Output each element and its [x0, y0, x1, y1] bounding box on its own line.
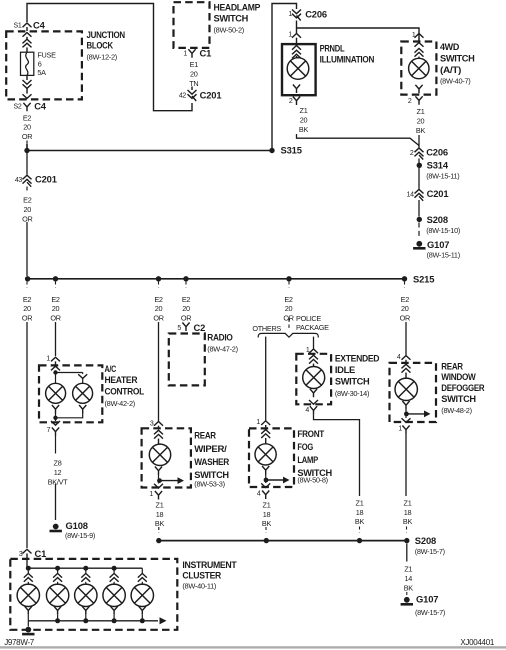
- cluster internal top bus: [27, 559, 142, 568]
- svg-text:3: 3: [150, 420, 154, 427]
- svg-text:2: 2: [408, 98, 412, 105]
- svg-text:E2: E2: [23, 196, 32, 205]
- connector C4 pin S1: [23, 23, 32, 27]
- svg-text:14: 14: [407, 192, 415, 199]
- svg-text:20: 20: [24, 205, 32, 214]
- junction dot S208 x=158.8: [156, 538, 161, 543]
- svg-text:OR: OR: [22, 314, 32, 323]
- svg-text:G107: G107: [416, 594, 438, 605]
- cluster top bus junction dots: [26, 566, 31, 571]
- svg-text:Z1: Z1: [156, 500, 164, 509]
- svg-text:(8W-15-11): (8W-15-11): [426, 172, 459, 181]
- rear wiper exit chevron: [158, 475, 160, 484]
- svg-text:PRNDL: PRNDL: [320, 43, 345, 54]
- svg-text:1: 1: [149, 491, 153, 498]
- svg-text:20: 20: [182, 304, 190, 313]
- svg-text:C201: C201: [35, 174, 57, 185]
- svg-text:Z1: Z1: [404, 565, 412, 574]
- svg-text:43: 43: [15, 177, 23, 184]
- svg-text:(8W-50-8): (8W-50-8): [297, 476, 327, 485]
- PRNDL internal exit: [293, 85, 300, 94]
- front fog exit chevron: [265, 475, 267, 484]
- ground G108: [53, 524, 59, 530]
- wire stub+label E2 20 OR (x=406): [404, 282, 406, 288]
- junction dot S215 bus x=55.5: [53, 276, 58, 281]
- svg-text:(8W-50-2): (8W-50-2): [214, 25, 244, 34]
- svg-text:E2: E2: [154, 295, 163, 304]
- junction block internal connector top: [23, 33, 32, 37]
- cluster lamp exit connectors: [25, 606, 32, 615]
- svg-text:REAR: REAR: [441, 361, 463, 372]
- junction dot S215 bus x=186: [183, 276, 188, 281]
- svg-text:E2: E2: [23, 113, 32, 122]
- svg-text:CONTROL: CONTROL: [105, 387, 145, 398]
- svg-text:C4: C4: [33, 19, 46, 30]
- A/C internal entry connector: [51, 366, 60, 370]
- A/C internal split: [53, 370, 57, 374]
- rear wiper internal exit: [155, 467, 162, 476]
- svg-text:SWITCH: SWITCH: [441, 394, 476, 405]
- svg-text:2: 2: [289, 98, 293, 105]
- connector C206 pin 1: [292, 10, 301, 14]
- svg-text:1: 1: [183, 51, 187, 58]
- rear wiper internal entry: [154, 430, 163, 434]
- svg-text:(8W-30-14): (8W-30-14): [335, 389, 369, 398]
- extended idle internal exit: [310, 389, 317, 398]
- node S208 (bus): [404, 538, 409, 543]
- front fog arrow to other circuit: [266, 479, 284, 481]
- junction block internal connector bottom: [26, 75, 28, 80]
- defogger internal exit: [402, 401, 409, 410]
- svg-text:J978W-7: J978W-7: [4, 638, 35, 647]
- svg-text:4: 4: [305, 407, 309, 414]
- svg-text:4: 4: [397, 354, 401, 361]
- junction dot S215 bus x=27: [25, 276, 30, 281]
- lamp front fog: [255, 444, 276, 465]
- lamp instrument cluster 4: [103, 584, 125, 606]
- svg-text:S2: S2: [14, 104, 22, 111]
- svg-text:20: 20: [23, 304, 31, 313]
- svg-text:EXTENDED: EXTENDED: [335, 354, 380, 365]
- wire defogger to S208: [405, 434, 407, 496]
- 4WD internal exit: [415, 85, 422, 94]
- svg-text:BLOCK: BLOCK: [87, 41, 114, 52]
- svg-text:E1: E1: [190, 60, 199, 69]
- svg-text:Z1: Z1: [263, 500, 271, 509]
- svg-text:BK/VT: BK/VT: [48, 477, 68, 486]
- svg-text:S314: S314: [427, 159, 449, 170]
- 4WD internal connector: [415, 43, 424, 47]
- svg-text:BK: BK: [403, 517, 413, 526]
- svg-text:E2: E2: [401, 295, 410, 304]
- svg-text:LAMP: LAMP: [297, 455, 318, 466]
- node S215: [402, 276, 407, 281]
- front fog internal entry: [261, 430, 270, 434]
- svg-text:4WD: 4WD: [440, 42, 459, 53]
- defogger exit chevron: [405, 410, 407, 419]
- svg-text:BK: BK: [299, 125, 309, 134]
- svg-text:E2: E2: [284, 295, 293, 304]
- svg-text:(8W-15-10): (8W-15-10): [426, 226, 460, 235]
- svg-text:C1: C1: [35, 548, 47, 559]
- wire stub+label E2 20 OR (x=158.5): [158, 282, 160, 288]
- cluster internal ground: [27, 621, 29, 627]
- svg-text:FRONT: FRONT: [297, 429, 324, 440]
- svg-text:E2: E2: [23, 295, 32, 304]
- svg-text:20: 20: [23, 123, 31, 132]
- svg-text:S215: S215: [413, 273, 434, 284]
- svg-text:1: 1: [398, 426, 402, 433]
- svg-text:JUNCTION: JUNCTION: [87, 30, 126, 41]
- wire POLICE branch: [313, 337, 315, 349]
- defogger internal entry: [402, 364, 411, 368]
- PRNDL illumination box: [282, 44, 316, 95]
- svg-text:(8W-15-9): (8W-15-9): [65, 531, 95, 540]
- svg-text:REAR: REAR: [194, 431, 216, 442]
- svg-text:BK: BK: [416, 126, 426, 135]
- svg-text:3: 3: [19, 551, 23, 558]
- ground G107 (lower): [404, 597, 410, 603]
- junction dot S215 bus x=289: [286, 276, 291, 281]
- svg-text:PACKAGE: PACKAGE: [296, 323, 329, 332]
- defogger arrow to other circuit: [406, 413, 425, 415]
- svg-text:1: 1: [288, 11, 292, 18]
- svg-text:1: 1: [46, 356, 50, 363]
- node S315: [269, 148, 274, 153]
- lamp 4WD switch: [409, 58, 429, 78]
- wire options brace: [258, 333, 318, 337]
- svg-text:DEFOGGER: DEFOGGER: [441, 383, 484, 394]
- svg-text:5: 5: [177, 325, 181, 332]
- svg-text:TN: TN: [189, 79, 198, 88]
- cluster lamp entry connectors: [27, 568, 29, 573]
- svg-text:(8W-53-3): (8W-53-3): [194, 480, 224, 489]
- connector C206 pin 2: [415, 148, 424, 152]
- wire stub+label E2 20 OR (x=55.5): [55, 282, 57, 288]
- svg-text:20: 20: [285, 304, 293, 313]
- svg-text:C206: C206: [426, 147, 448, 158]
- svg-text:20: 20: [300, 116, 308, 125]
- junction dot at (27,150.5): [24, 148, 29, 153]
- svg-text:(8W-42-2): (8W-42-2): [105, 399, 135, 408]
- svg-text:FUSE: FUSE: [37, 51, 56, 60]
- rear window defogger switch box: [390, 363, 437, 422]
- connector C201 pin 14: [415, 189, 424, 193]
- svg-text:OR: OR: [181, 314, 191, 323]
- svg-text:OR: OR: [400, 314, 410, 323]
- junction dot S215 bus x=158.5: [156, 276, 161, 281]
- svg-text:(8W-15-11): (8W-15-11): [427, 251, 460, 260]
- svg-text:42: 42: [179, 92, 187, 99]
- svg-text:Z1: Z1: [404, 498, 412, 507]
- wire stub+label E2 20 OR (x=289): [288, 282, 290, 288]
- svg-text:HEATER: HEATER: [105, 375, 138, 386]
- lamp instrument cluster 2: [46, 584, 68, 606]
- svg-text:BK: BK: [355, 517, 365, 526]
- svg-text:WASHER: WASHER: [194, 457, 229, 468]
- front fog lamp switch box: [249, 428, 294, 487]
- extended idle internal entry: [309, 355, 318, 359]
- fuse 6 5A: [21, 52, 34, 75]
- wire S315 bus: [27, 144, 272, 151]
- svg-text:7: 7: [47, 427, 51, 434]
- svg-text:C206: C206: [305, 9, 327, 20]
- svg-text:BK: BK: [155, 519, 165, 528]
- wire C206 split to PRNDL and 4WD: [297, 28, 420, 42]
- wire S315 to C206: [272, 4, 297, 151]
- svg-text:Z1: Z1: [417, 107, 425, 116]
- svg-text:OR: OR: [50, 314, 60, 323]
- connector C2 pin 5: [182, 323, 189, 332]
- svg-text:18: 18: [156, 510, 164, 519]
- svg-text:SWITCH: SWITCH: [335, 377, 370, 388]
- PRNDL internal connector: [292, 46, 301, 50]
- svg-text:WINDOW: WINDOW: [441, 372, 476, 383]
- junction block: [6, 31, 82, 99]
- wire C201 to S208: [418, 200, 420, 217]
- svg-text:12: 12: [54, 468, 62, 477]
- wire 4WD to C206: [418, 135, 420, 148]
- svg-text:OR: OR: [22, 132, 32, 141]
- svg-text:20: 20: [52, 304, 60, 313]
- svg-text:18: 18: [356, 508, 364, 517]
- connector C201 pin 42: [191, 87, 193, 91]
- connector C1 pin 1 (headlamp switch): [188, 49, 195, 58]
- svg-text:POLICE: POLICE: [296, 314, 321, 323]
- wire S208 to G107 (Z1 14 BK): [406, 544, 408, 562]
- connector C201 pin 43: [26, 151, 28, 175]
- svg-text:(8W-40-11): (8W-40-11): [182, 582, 216, 591]
- wire top feed loop (headlamp C201 to junction block): [27, 4, 192, 111]
- svg-text:20: 20: [401, 304, 409, 313]
- wire E2 20 OR (C201 to S215): [26, 187, 28, 191]
- svg-text:C1: C1: [200, 47, 212, 58]
- A/C internal exit join: [52, 405, 59, 414]
- A/C heater control box: [39, 365, 102, 422]
- svg-text:14: 14: [405, 574, 413, 583]
- radio box: [169, 334, 205, 386]
- svg-text:18: 18: [404, 508, 412, 517]
- svg-text:IDLE: IDLE: [335, 365, 356, 376]
- lamp extended idle: [303, 367, 325, 389]
- front fog internal exit: [262, 466, 269, 475]
- wire stub+label E2 20 OR (x=27): [26, 282, 28, 288]
- svg-text:(8W-15-7): (8W-15-7): [415, 608, 445, 617]
- svg-text:CLUSTER: CLUSTER: [182, 570, 221, 581]
- svg-text:XJ004401: XJ004401: [460, 638, 494, 647]
- wire extended idle to S208: [314, 415, 360, 496]
- svg-text:(8W-48-2): (8W-48-2): [441, 406, 471, 415]
- rear wiper washer switch box: [142, 428, 191, 487]
- wire S208 to G107: [418, 223, 420, 239]
- svg-text:BK: BK: [404, 583, 414, 592]
- svg-text:(8W-15-7): (8W-15-7): [415, 547, 445, 556]
- svg-text:HEADLAMP: HEADLAMP: [214, 2, 261, 13]
- wire S208 bus: [159, 540, 407, 542]
- ground G107 (upper): [416, 241, 422, 247]
- svg-text:SWITCH: SWITCH: [440, 54, 475, 65]
- svg-text:5A: 5A: [37, 68, 46, 77]
- svg-text:A/C: A/C: [105, 364, 117, 375]
- svg-text:S315: S315: [281, 144, 302, 155]
- svg-text:OR: OR: [153, 314, 163, 323]
- svg-text:20: 20: [417, 116, 425, 125]
- svg-text:G108: G108: [66, 520, 88, 531]
- svg-text:C201: C201: [200, 89, 222, 100]
- wire S215 bus: [27, 278, 405, 280]
- lamp A/C left: [46, 383, 66, 403]
- svg-text:S208: S208: [415, 535, 436, 546]
- svg-text:S1: S1: [14, 22, 22, 29]
- svg-text:(8W-12-2): (8W-12-2): [87, 52, 117, 61]
- svg-text:G107: G107: [427, 239, 449, 250]
- 4WD pin 2: [415, 96, 422, 105]
- svg-text:Z1: Z1: [356, 498, 364, 507]
- wire stub+label E2 20 OR (x=186): [185, 282, 187, 288]
- lamp A/C right: [73, 383, 93, 403]
- svg-text:2: 2: [410, 150, 414, 157]
- wire S314 to C201: [418, 168, 420, 189]
- wire OTHERS branch: [265, 337, 267, 421]
- lamp PRNDL: [287, 58, 309, 80]
- svg-text:20: 20: [190, 69, 198, 78]
- svg-text:C2: C2: [194, 322, 206, 333]
- svg-text:OTHERS: OTHERS: [252, 324, 281, 333]
- junction dot S208 x=359.5: [357, 538, 362, 543]
- junction dot S208 x=266: [264, 538, 269, 543]
- instrument cluster box: [10, 559, 177, 630]
- rear wiper arrow to other circuit: [160, 480, 179, 482]
- connector C4 pin S2: [23, 103, 30, 112]
- extended idle switch box: [296, 354, 331, 405]
- svg-text:E2: E2: [51, 295, 60, 304]
- headlamp switch: [174, 2, 210, 48]
- svg-text:RADIO: RADIO: [207, 332, 233, 343]
- lamp instrument cluster 1: [17, 584, 39, 606]
- bottom separator line: [0, 646, 506, 648]
- wire PRNDL to C206 junction: [297, 134, 420, 146]
- node S208 (upper): [417, 217, 422, 222]
- svg-text:ILLUMINATION: ILLUMINATION: [320, 55, 375, 66]
- svg-text:18: 18: [263, 510, 271, 519]
- svg-text:1: 1: [256, 419, 260, 426]
- svg-text:E2: E2: [182, 295, 191, 304]
- svg-text:C4: C4: [34, 100, 47, 111]
- svg-text:(8W-47-2): (8W-47-2): [207, 345, 237, 354]
- svg-text:Z8: Z8: [54, 459, 62, 468]
- svg-text:SWITCH: SWITCH: [214, 13, 249, 24]
- wire C206 to S314: [418, 159, 420, 164]
- svg-text:C201: C201: [427, 188, 449, 199]
- node S314: [417, 163, 422, 168]
- svg-text:S208: S208: [427, 214, 448, 225]
- PRNDL pin 2: [293, 97, 300, 106]
- svg-text:4: 4: [257, 491, 261, 498]
- cluster internal bottom bus: [28, 620, 158, 622]
- svg-text:BK: BK: [262, 519, 272, 528]
- svg-text:Z1: Z1: [300, 106, 308, 115]
- lamp instrument cluster 3: [75, 584, 97, 606]
- svg-text:FOG: FOG: [297, 442, 313, 453]
- svg-text:(8W-40-7): (8W-40-7): [440, 76, 470, 85]
- lamp rear wiper: [149, 444, 170, 465]
- lamp instrument cluster 5: [131, 584, 153, 606]
- svg-text:WIPER/: WIPER/: [194, 444, 227, 455]
- 4WD switch box: [401, 42, 436, 95]
- svg-text:(A/T): (A/T): [440, 65, 461, 76]
- svg-text:20: 20: [155, 304, 163, 313]
- lamp defogger: [395, 378, 417, 400]
